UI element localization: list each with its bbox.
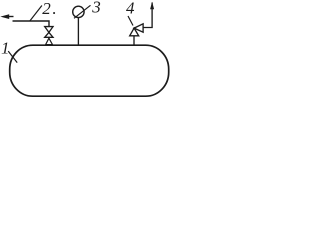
svg-text:.: . xyxy=(52,0,56,18)
svg-text:2: 2 xyxy=(42,0,51,18)
svg-text:4: 4 xyxy=(126,0,135,17)
svg-text:1: 1 xyxy=(1,38,10,57)
svg-text:3: 3 xyxy=(91,0,101,17)
